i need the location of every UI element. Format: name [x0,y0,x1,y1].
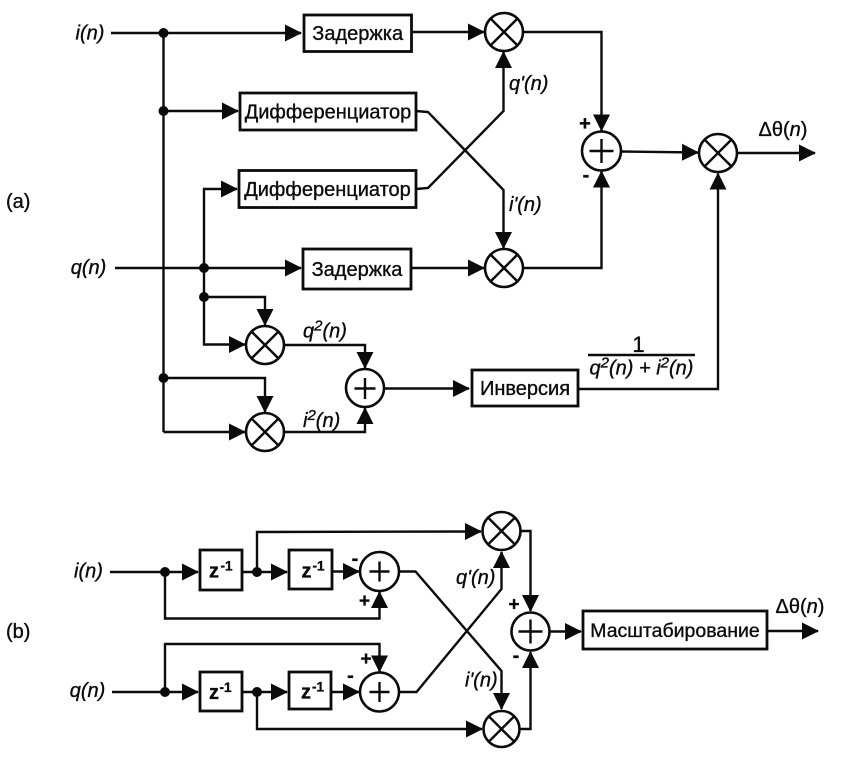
node dot after z1b [252,687,262,697]
svg-text:-: - [347,665,354,687]
block Инверсия [472,370,578,406]
block z^-1 (i row second) [289,550,332,589]
wire Mb2 output to S5 bottom [520,652,531,729]
svg-text:Масштабирование: Масштабирование [590,620,760,642]
svg-text:q2(n) + i2(n): q2(n) + i2(n) [590,355,694,380]
svg-text:+: + [508,595,519,616]
wire q bus down from q(n) junction [203,268,205,344]
node dot on q bus feeding Mq2 top [199,292,209,302]
svg-text:-: - [583,165,590,187]
wire M1 output to summer S1 top [523,32,602,131]
wire tap up to Mb1 left input [257,532,481,573]
multiplier M3 [699,134,737,172]
summer S4 [360,673,399,712]
wire z1a to z2a [242,571,287,573]
svg-text:q'(n): q'(n) [456,567,495,589]
svg-text:q(n): q(n) [71,257,107,279]
svg-text:-1: -1 [220,680,232,695]
svg-text:-: - [352,548,359,570]
svg-text:Задержка: Задержка [312,259,404,281]
block Задержка (upper) [304,15,412,52]
wire q feedforward up to S4 top [165,644,380,692]
node dot on i(n) line [159,28,169,38]
svg-text:q(n): q(n) [70,680,106,702]
wire Mi2 output to summer S2 bottom [284,408,365,432]
multiplier Mb2 [484,711,520,747]
svg-text:Дифференциатор: Дифференциатор [245,102,412,124]
node dot on i(n) line (b) [160,567,170,577]
wire S4 output diagonal up to Mb1 bottom (q'(n)) [399,552,502,692]
svg-text:Δθ(n): Δθ(n) [776,596,825,618]
wire S2 output to Инверсия [384,387,469,389]
wire Mq2 output to summer S2 top [284,345,365,368]
node dot after z1a [252,567,262,577]
multiplier M2 [485,249,523,287]
svg-text:q'(n): q'(n) [509,73,548,95]
svg-text:+: + [360,649,371,670]
wire Дифференциатор1 output diagonal down to M2 top (i'(n)) [416,111,504,248]
svg-text:(a): (a) [6,191,30,213]
block Задержка (lower) [303,249,411,289]
svg-text:-1: -1 [221,559,233,574]
svg-text:Инверсия: Инверсия [480,378,570,400]
wire i bus to Дифференциатор1 [164,110,239,112]
fraction bar [588,354,695,356]
block Дифференциатор (lower) [239,171,416,208]
multiplier Mb1 [483,512,521,550]
wire q branch to Mq2 top input [204,297,265,325]
svg-text:z: z [302,561,312,583]
wire i(n) to z1a [110,571,198,573]
svg-text:i2(n): i2(n) [303,407,340,432]
block Масштабирование [583,611,767,649]
wire Дифференциатор2 output diagonal up to M1 bottom (q'(n)) [416,52,504,189]
wire S5 output to Масштабирование [550,630,582,632]
wire Задержка1 to multiplier M1 [412,31,485,33]
wire i(n) vertical bus [162,33,164,432]
wire M2 output to summer S1 bottom [523,172,602,269]
svg-text:-: - [513,645,520,667]
wire q(n) to z1b [112,691,198,693]
svg-text:i(n): i(n) [76,23,105,45]
multiplier Mq2 (q squarer) [246,326,284,364]
wire tap down to Mb2 left input [257,692,482,729]
svg-text:z: z [209,682,219,704]
wire M3 output arrow [737,152,815,154]
svg-text:Задержка: Задержка [312,23,404,45]
wire S3 output diagonal down to Mb2 top (i'(n)) [399,572,502,710]
svg-text:q2(n): q2(n) [303,318,347,343]
wire i feedback down to S3 bottom [165,572,380,619]
wire i(n) to Задержка1 [111,32,301,34]
svg-text:z: z [209,561,219,583]
wire Инверсия output up to M3 bottom [578,174,718,390]
svg-text:+: + [359,591,370,612]
svg-text:Дифференциатор: Дифференциатор [244,179,411,201]
summer S5 [512,613,550,651]
wire i branch to Mi2 top input [164,378,266,412]
wire q bus to Mq2 left input [204,343,245,346]
block Дифференциатор (upper) [240,93,416,130]
svg-text:+: + [579,113,591,135]
block z^-1 (q row first) [200,672,242,711]
wire z1b to z2b [242,691,287,693]
multiplier M1 [485,13,523,51]
svg-text:i'(n): i'(n) [509,194,542,216]
svg-text:(b): (b) [6,621,30,643]
wire q(n) to Задержка2 [115,267,301,269]
node dot on q(n) line [199,263,209,273]
wire Задержка2 to multiplier M2 [411,267,484,269]
wire z2b to S4 [331,691,359,693]
wire q bus up to Дифференциатор2 [204,189,237,268]
svg-text:Δθ(n): Δθ(n) [759,119,808,141]
block z^-1 (q row second) [289,672,331,709]
block z^-1 (i row first) [200,550,242,590]
svg-text:-1: -1 [313,559,325,574]
node dot on i bus feeding Mi2 top [159,373,169,383]
wire i bus to Mi2 left input [164,431,246,433]
summer S3 [360,552,399,591]
svg-text:-1: -1 [312,680,324,695]
wire S1 output to multiplier M3 [621,152,698,153]
svg-text:z: z [301,682,311,704]
summer S1 [582,132,621,171]
wire z2a to S3 [332,570,359,572]
node dot on q(n) line (b) [160,687,170,697]
summer S2 [346,369,384,407]
svg-text:i'(n): i'(n) [465,670,498,692]
svg-text:i(n): i(n) [74,561,103,583]
wire Масштабирование output arrow [767,630,818,632]
node dot on i bus feeding Дифференциатор1 [159,106,169,116]
wire Mb1 output to S5 top [521,531,531,611]
multiplier Mi2 (i squarer) [246,413,284,451]
svg-text:1: 1 [632,332,644,357]
